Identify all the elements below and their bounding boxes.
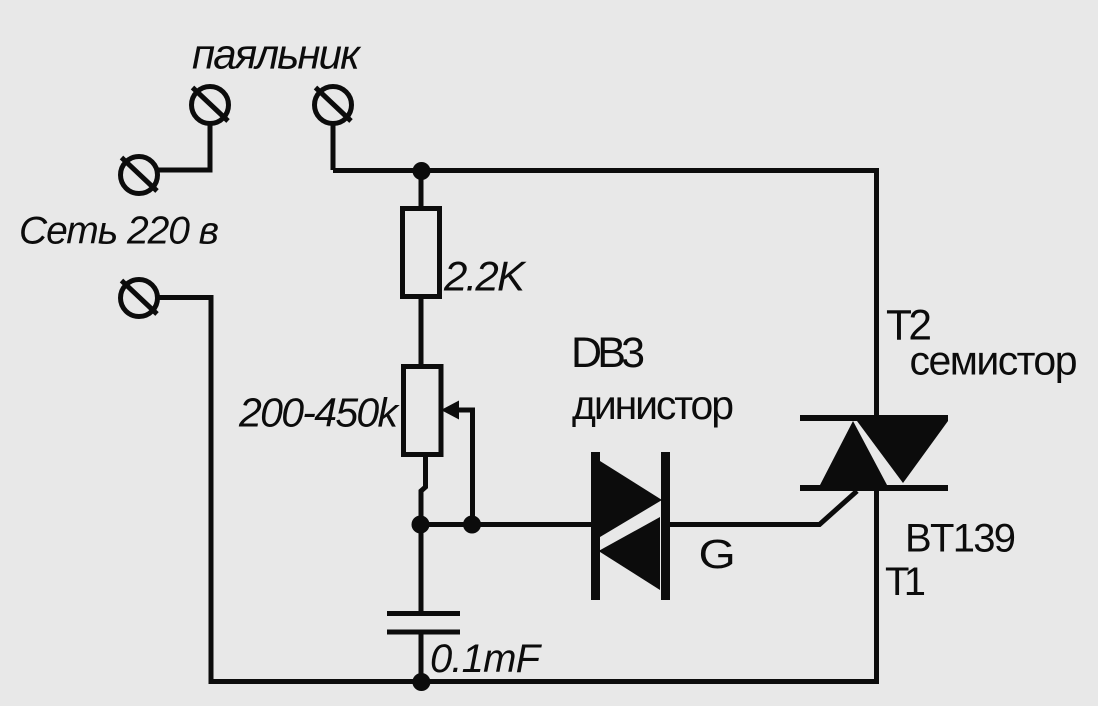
svg-text:T1: T1	[885, 560, 926, 604]
resistor R1 2.2K body	[403, 209, 440, 297]
wire capacitor to bottom rail	[419, 632, 424, 684]
wire X3 to corner	[158, 168, 213, 173]
wire resistor to pot	[419, 296, 424, 368]
triac VS1 top bar	[800, 415, 948, 421]
svg-text:семистор: семистор	[910, 338, 1078, 384]
svg-text:динистор: динистор	[572, 382, 734, 428]
wire left rail	[209, 295, 214, 684]
diac VD1 lower triangle	[599, 517, 661, 590]
svg-text:BT139: BT139	[905, 517, 1016, 561]
node junction divider right	[463, 516, 481, 534]
diac VD1 right electrode bar	[661, 452, 670, 600]
wire bottom rail	[209, 679, 880, 684]
svg-text:паяльник: паяльник	[192, 31, 362, 78]
wire right rail upper	[874, 168, 879, 417]
wire X2 down	[331, 124, 336, 170]
capacitor C1 plate bottom	[387, 630, 460, 635]
wire pot wiper	[456, 410, 473, 526]
wire right rail lower	[874, 488, 879, 684]
svg-text:2.2K: 2.2K	[443, 253, 527, 300]
wire X4 to left rail	[158, 295, 214, 300]
terminal X2 (паяльник right)	[315, 87, 352, 124]
wire top rail	[333, 168, 877, 173]
potentiometer wiper arrowhead	[441, 401, 459, 420]
diac VD1 left electrode bar	[591, 452, 600, 600]
node junction bottom	[412, 673, 430, 691]
svg-text:DB3: DB3	[571, 329, 645, 377]
svg-text:200-450k: 200-450k	[238, 390, 401, 436]
node junction top	[413, 162, 431, 180]
wire node to capacitor	[419, 524, 424, 613]
terminal X3 (сеть upper)	[121, 157, 158, 194]
terminal X1 (паяльник left)	[192, 87, 229, 124]
svg-text:0.1mF: 0.1mF	[430, 637, 543, 681]
svg-text:Сеть 220 в: Сеть 220 в	[19, 210, 219, 253]
triac VS1 bottom bar	[800, 485, 948, 491]
diac VD1 upper triangle	[600, 461, 662, 537]
wire diac to gate	[670, 491, 857, 525]
triac VS1 left triangle	[820, 421, 887, 485]
node junction divider left	[412, 516, 430, 534]
potentiometer R2 body	[404, 367, 442, 455]
wire node rail to diac	[418, 522, 593, 527]
wire X1 down	[208, 124, 213, 170]
wire pot bottom to node	[421, 454, 426, 527]
triac VS1 right triangle	[857, 421, 948, 483]
wire node to resistor	[419, 168, 424, 210]
terminal X4 (сеть lower)	[121, 280, 158, 317]
capacitor C1 plate top	[387, 611, 460, 616]
svg-text:G: G	[699, 532, 736, 577]
